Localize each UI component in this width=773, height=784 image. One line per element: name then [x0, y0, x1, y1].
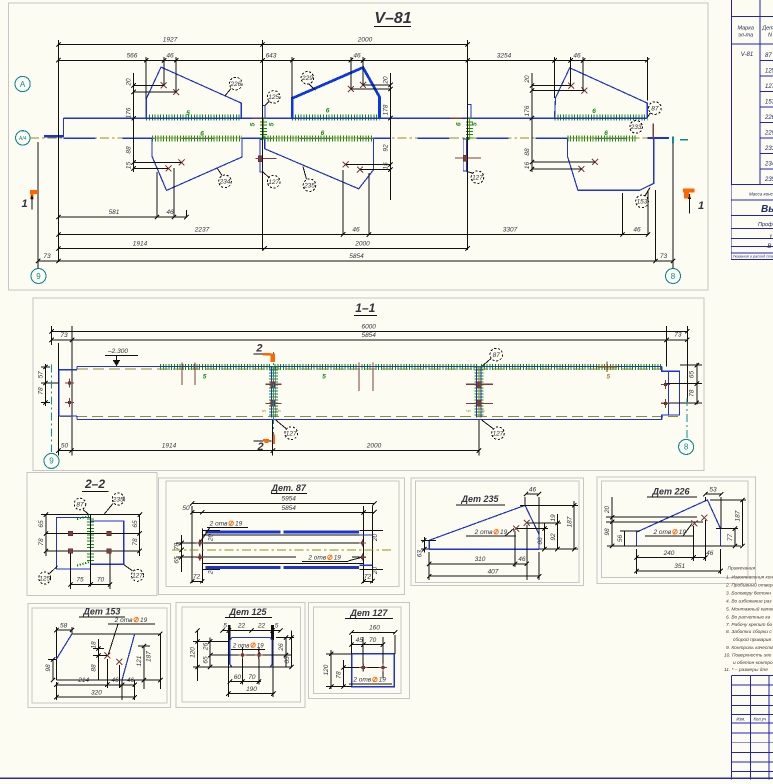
svg-text:233: 233 — [764, 146, 773, 152]
vertical dim column left (20/176/88/15) — [133, 73, 135, 172]
beam left end cap — [62, 118, 64, 137]
beam interior dashed lines — [77, 368, 660, 370]
svg-text:V-81: V-81 — [741, 52, 753, 58]
svg-text:22: 22 — [237, 623, 246, 630]
svg-text:3307: 3307 — [503, 227, 518, 234]
svg-text:26: 26 — [202, 643, 209, 652]
callout circle 87 — [648, 113, 651, 117]
det125 thick side plates — [228, 626, 230, 640]
det87 right end cap lines — [360, 534, 373, 536]
svg-text:5: 5 — [472, 122, 479, 126]
svg-text:127: 127 — [286, 431, 297, 438]
svg-text:125: 125 — [268, 94, 279, 101]
svg-text:8: 8 — [671, 272, 676, 281]
weld hatch 5 on gusset 226 — [146, 115, 241, 121]
axis 8 vertical line — [672, 144, 674, 269]
section axis 8 — [686, 398, 688, 439]
flange bolts pins — [181, 363, 183, 386]
svg-text:15: 15 — [125, 162, 132, 170]
svg-text:Дет. 87: Дет. 87 — [270, 483, 306, 493]
callout circle 127 right — [467, 171, 473, 173]
svg-text:226: 226 — [229, 81, 241, 88]
dim row bottom 2 (2237/46/3307/46) — [58, 234, 648, 236]
svg-text:229: 229 — [764, 131, 773, 137]
svg-text:5. Монтажный катет: 5. Монтажный катет — [726, 605, 773, 612]
svg-text:65: 65 — [284, 656, 291, 664]
svg-text:5954: 5954 — [281, 496, 296, 503]
det127 dim 160 — [352, 631, 396, 633]
svg-text:5: 5 — [262, 409, 268, 412]
svg-text:2 отв: 2 отв — [307, 555, 326, 562]
det127 dims 45/70 — [352, 644, 383, 646]
svg-text:Дет: Дет — [761, 26, 773, 32]
svg-text:20: 20 — [125, 78, 132, 87]
svg-text:2. Пробивный отверст: 2. Пробивный отверст — [725, 581, 773, 588]
svg-text:20: 20 — [524, 75, 531, 84]
dim row bottom 3 (1914/2000) — [58, 248, 467, 250]
section cut 2 line — [273, 352, 275, 444]
center joint: vertical weld — [263, 118, 265, 139]
svg-text:65: 65 — [38, 520, 45, 528]
svg-text:78: 78 — [689, 389, 696, 397]
callout circle 234 — [218, 169, 223, 176]
svg-text:8: 8 — [684, 443, 689, 452]
svg-text:N: N — [768, 33, 772, 39]
svg-text:65: 65 — [689, 371, 696, 379]
axis 9 vertical line — [37, 142, 39, 268]
det127 bolts — [362, 637, 364, 672]
svg-text:19: 19 — [257, 643, 264, 649]
det153 dim 98 — [52, 659, 54, 680]
det87 dims 72 bottom — [192, 580, 202, 582]
vertical dim column right (20/176/88/16) — [531, 73, 533, 172]
det87 beam flange bars — [205, 531, 280, 534]
frame: top view V-81 container — [9, 3, 709, 290]
svg-text:26: 26 — [278, 643, 285, 652]
svg-text:5: 5 — [223, 623, 227, 630]
svg-text:87: 87 — [765, 53, 772, 59]
svg-text:1: 1 — [698, 200, 704, 212]
svg-text:1. Изготовления конст: 1. Изготовления конст — [726, 575, 773, 581]
left end bolts — [65, 379, 74, 388]
callout circle 125 — [265, 101, 270, 106]
svg-text:88: 88 — [125, 146, 132, 154]
svg-text:20: 20 — [372, 567, 379, 576]
svg-text:125: 125 — [39, 575, 50, 582]
svg-text:87: 87 — [76, 501, 84, 508]
svg-text:5: 5 — [268, 122, 275, 126]
svg-text:5: 5 — [275, 623, 279, 630]
svg-text:11. * – размеры для: 11. * – размеры для — [724, 667, 768, 673]
svg-text:73: 73 — [60, 332, 68, 339]
svg-text:1–1: 1–1 — [355, 301, 375, 315]
frame: Det 127 box — [309, 602, 410, 698]
svg-text:127: 127 — [765, 84, 773, 90]
svg-text:310: 310 — [475, 556, 486, 563]
svg-text:78: 78 — [38, 538, 45, 546]
weld hatch 6 on gusset 233 — [555, 115, 648, 121]
right end bolts — [661, 380, 670, 389]
svg-text:2: 2 — [256, 441, 263, 453]
svg-text:2 отв: 2 отв — [652, 529, 671, 536]
frame: section 2-2 box — [27, 473, 157, 596]
det226 shape — [636, 500, 720, 546]
svg-text:2237: 2237 — [194, 227, 210, 234]
svg-text:46: 46 — [518, 556, 526, 563]
svg-text:187: 187 — [735, 510, 742, 521]
det235 left 63 — [421, 539, 436, 541]
svg-text:19: 19 — [379, 677, 387, 684]
svg-text:5: 5 — [249, 122, 256, 126]
vertical dim column middle (20/178/92/15) — [390, 73, 392, 200]
det153 holes — [104, 653, 110, 659]
section dim row 73/5854/73 — [52, 339, 688, 341]
svg-text:643: 643 — [266, 52, 277, 59]
svg-text:2000: 2000 — [354, 241, 370, 248]
svg-text:73: 73 — [674, 332, 682, 339]
det235 dim 46 top — [526, 493, 539, 495]
2-2 plate right (235) — [91, 521, 124, 564]
det125 plate outline — [230, 638, 272, 668]
svg-text:72: 72 — [364, 573, 372, 580]
svg-text:87: 87 — [493, 352, 501, 359]
svg-text:58: 58 — [60, 622, 68, 629]
svg-text:63: 63 — [416, 550, 423, 558]
det153 dim 58 — [56, 629, 72, 631]
svg-text:5854: 5854 — [349, 253, 364, 260]
svg-text:5: 5 — [481, 409, 487, 412]
svg-text:581: 581 — [109, 209, 120, 216]
dim row bottom 1 (581/46) — [58, 216, 186, 218]
svg-text:8. Заботки сборки с: 8. Заботки сборки с — [726, 629, 772, 635]
svg-text:5854: 5854 — [281, 505, 296, 512]
det87 dim 5954 — [192, 502, 374, 504]
section bottom dim row (50/1914/2000) — [58, 450, 479, 452]
svg-text:18: 18 — [90, 641, 97, 649]
svg-text:240: 240 — [663, 550, 675, 557]
2-2 callout 127 — [124, 565, 133, 571]
2-2 bolt rows — [46, 532, 140, 534]
svg-text:20: 20 — [207, 567, 214, 576]
svg-text:20: 20 — [372, 534, 379, 543]
2-2 plate left (87 web) — [57, 517, 91, 569]
svg-text:120: 120 — [323, 664, 330, 675]
mid joint (section) — [269, 367, 278, 418]
svg-text:46: 46 — [352, 227, 360, 234]
svg-text:46: 46 — [127, 677, 135, 684]
page bottom border — [0, 777, 773, 779]
callout circle 235 — [303, 167, 307, 180]
bolts X gusset 153 — [578, 166, 584, 172]
svg-text:Дет 235: Дет 235 — [460, 494, 499, 504]
det127 verticals 160 ends — [351, 635, 353, 654]
2-2 top line — [41, 514, 141, 516]
bolts X gusset 234 — [166, 165, 172, 171]
det87 dim 50/5854 — [192, 511, 374, 513]
det125 left dims 120/26/65 — [197, 631, 199, 681]
svg-text:226: 226 — [764, 115, 773, 121]
svg-text:10. Поверхность эле: 10. Поверхность эле — [724, 652, 772, 658]
right joint: vertical weld — [468, 118, 470, 139]
det87 holes left — [196, 539, 203, 546]
det226 left dims 20/98 — [611, 497, 613, 546]
svg-text:5: 5 — [186, 110, 190, 117]
svg-text:127: 127 — [268, 179, 279, 186]
svg-text:1914: 1914 — [133, 241, 148, 248]
right joint bolt marks — [463, 155, 467, 161]
frame: Det 226 box — [597, 477, 756, 584]
svg-text:66: 66 — [537, 537, 544, 545]
dim row 1 top (1927/2000) — [58, 44, 467, 46]
det125 bottom dims 60/70 — [230, 681, 261, 683]
svg-text:46: 46 — [111, 677, 119, 684]
svg-text:233: 233 — [630, 124, 642, 131]
weld hatch 6 on gusset 229 — [292, 115, 379, 121]
gusset plate 226 — [146, 67, 241, 118]
svg-text:2 отв: 2 отв — [232, 643, 249, 649]
bolts X gusset 233 — [568, 83, 574, 89]
stamp table (blue) — [730, 675, 732, 779]
svg-text:88: 88 — [524, 148, 531, 156]
svg-text:19: 19 — [334, 555, 342, 562]
section callout 87 — [482, 359, 491, 367]
svg-text:19: 19 — [550, 514, 557, 522]
spec table (blue) — [731, 0, 733, 185]
svg-text:Указания и расход стали: Указания и расход стали — [733, 255, 773, 259]
frame: Det 125 box — [176, 602, 305, 707]
2-2 callout 87 — [83, 510, 89, 515]
spec table lower block — [730, 185, 732, 260]
svg-text:6: 6 — [321, 130, 325, 137]
svg-text:65: 65 — [202, 656, 209, 664]
left end dims (57/78) — [45, 364, 47, 406]
svg-text:178: 178 — [382, 104, 389, 115]
svg-text:Дет 226: Дет 226 — [651, 487, 690, 497]
svg-text:98: 98 — [45, 664, 52, 672]
svg-text:235: 235 — [764, 177, 773, 183]
svg-text:Дет 125: Дет 125 — [228, 607, 267, 617]
svg-text:2000: 2000 — [357, 37, 373, 44]
svg-text:56: 56 — [617, 535, 624, 543]
svg-text:46: 46 — [633, 227, 641, 234]
det226 bolts — [692, 520, 698, 526]
det125 bolts — [241, 647, 243, 685]
svg-text:153: 153 — [637, 199, 648, 206]
svg-text:5: 5 — [203, 374, 207, 381]
svg-text:127: 127 — [472, 175, 483, 182]
svg-text:2000: 2000 — [366, 443, 382, 450]
center joint: plate 125 (top) — [263, 105, 265, 117]
svg-text:78: 78 — [132, 538, 139, 546]
svg-text:77: 77 — [727, 534, 734, 542]
top flange weld hatch (section) — [160, 364, 271, 370]
det125 right dims 26/65 — [285, 638, 287, 668]
det153 right dims 121/187 — [143, 646, 145, 689]
svg-text:2 отв: 2 отв — [114, 617, 133, 624]
det127 plate — [352, 654, 395, 687]
svg-text:78: 78 — [37, 387, 44, 395]
det87 small 20 labels — [202, 529, 220, 531]
beam top flange edge (top view) — [63, 117, 647, 119]
det125 top dims 5/22/22/5 — [223, 630, 281, 632]
frame: section 1-1 container — [33, 298, 704, 471]
svg-text:Дет 153: Дет 153 — [82, 607, 120, 617]
svg-text:7. Рабочу крепит бо: 7. Рабочу крепит бо — [726, 622, 772, 628]
svg-text:6: 6 — [604, 130, 608, 137]
svg-text:234: 234 — [219, 179, 231, 186]
svg-text:16: 16 — [524, 162, 531, 170]
svg-text:3254: 3254 — [497, 52, 512, 59]
svg-text:2 отв: 2 отв — [474, 529, 493, 536]
svg-text:320: 320 — [91, 689, 102, 696]
det127 left dims 120/78 — [330, 650, 332, 689]
det125 long bottom line — [193, 666, 291, 668]
axis circle A/4 — [16, 131, 30, 145]
det87 end verticals — [201, 529, 203, 584]
svg-text:46: 46 — [166, 52, 174, 59]
svg-text:1927: 1927 — [163, 37, 178, 44]
svg-text:351: 351 — [674, 563, 685, 570]
frame: Det 87 box — [158, 478, 404, 595]
svg-text:70: 70 — [369, 637, 377, 644]
svg-text:2 отв: 2 отв — [352, 677, 371, 684]
svg-text:V–81: V–81 — [374, 10, 411, 27]
centerline axis A/4 (dash-dot olive) — [30, 137, 670, 139]
callout circle 229 — [309, 84, 316, 90]
svg-text:6000: 6000 — [361, 323, 376, 330]
svg-text:Примечания: Примечания — [728, 566, 756, 572]
det87 hole center lines — [176, 542, 364, 544]
dim row 2 top (566/46/643/46/3254/46) — [58, 59, 647, 61]
det87 centerline — [172, 549, 392, 551]
det87 holes right — [359, 539, 366, 546]
svg-text:2: 2 — [255, 343, 262, 355]
svg-text:65: 65 — [132, 520, 139, 528]
svg-text:Выб: Выб — [761, 203, 773, 215]
svg-text:Дет 127: Дет 127 — [349, 608, 388, 618]
svg-text:50: 50 — [182, 505, 190, 512]
det153 bottom dim 320 — [56, 696, 134, 698]
svg-text:12: 12 — [769, 235, 773, 241]
svg-text:60: 60 — [234, 674, 242, 681]
callout circle 233 — [630, 121, 643, 134]
svg-text:92: 92 — [550, 533, 557, 541]
axis circle 9 (top view) — [31, 269, 46, 284]
svg-text:235: 235 — [303, 183, 315, 190]
svg-text:6: 6 — [326, 108, 330, 115]
svg-text:160: 160 — [369, 625, 380, 632]
right joint: plate (bottom) — [463, 139, 466, 171]
section mark 1 right — [683, 188, 694, 192]
svg-text:9: 9 — [49, 457, 54, 466]
svg-text:70: 70 — [248, 674, 256, 681]
gusset plate 235 — [265, 139, 374, 189]
section dim row 6000 — [52, 330, 688, 332]
gusset plate 229 (thick) — [292, 68, 379, 119]
det235 bolts — [513, 526, 519, 532]
svg-text:153: 153 — [765, 100, 773, 106]
svg-text:53: 53 — [709, 487, 717, 494]
section mark 1 left — [30, 190, 38, 194]
det235 shape — [429, 505, 539, 549]
svg-text:75: 75 — [76, 577, 84, 584]
weld hatch 6 lower-left (gusset 234) — [152, 136, 242, 142]
svg-text:190: 190 — [246, 686, 257, 693]
svg-text:–2.300: –2.300 — [107, 348, 128, 355]
det153 bottom dims 214/46/46 — [56, 684, 134, 686]
svg-text:187: 187 — [146, 651, 153, 662]
svg-text:566: 566 — [127, 52, 138, 59]
2-2 callout 235 — [104, 504, 113, 515]
det153 shape — [72, 633, 160, 635]
beam right end cap — [647, 137, 669, 139]
center joint bolt marks — [253, 118, 262, 120]
svg-text:57: 57 — [37, 371, 44, 379]
callout circle 226 — [225, 89, 231, 96]
axis circle A — [15, 76, 30, 91]
svg-text:72: 72 — [193, 573, 201, 580]
svg-text:73: 73 — [660, 253, 668, 260]
right joint: plate (top) — [468, 104, 471, 118]
svg-text:120: 120 — [189, 647, 196, 658]
svg-text:46: 46 — [529, 486, 537, 493]
svg-text:Кол.уч: Кол.уч — [754, 717, 767, 722]
svg-text:176: 176 — [524, 105, 531, 116]
svg-text:сборой приварив: сборой приварив — [733, 636, 771, 643]
svg-text:22: 22 — [257, 623, 266, 630]
2-2 bottom dims 75/70 — [69, 553, 71, 589]
axis circle 8 (top view) — [666, 269, 681, 284]
svg-text:эл-та: эл-та — [738, 33, 753, 39]
svg-text:19: 19 — [140, 617, 148, 624]
gusset plate 233 — [555, 68, 648, 118]
svg-text:2 отв: 2 отв — [209, 521, 228, 528]
svg-text:121: 121 — [136, 655, 143, 666]
svg-text:и обетон-контро: и обетон-контро — [733, 660, 773, 666]
svg-text:234: 234 — [764, 162, 773, 168]
svg-text:6. Во расчетные ка: 6. Во расчетные ка — [726, 614, 771, 620]
svg-text:5: 5 — [466, 409, 472, 412]
svg-text:Изм.: Изм. — [736, 717, 745, 722]
svg-text:45: 45 — [356, 637, 364, 644]
det87 left dims 78/65 — [181, 535, 183, 572]
gusset plate 234 — [152, 139, 242, 190]
svg-text:46: 46 — [706, 550, 714, 557]
svg-text:127: 127 — [132, 573, 143, 580]
bolts X gusset 226 — [161, 82, 167, 88]
2-2 vertical weld — [87, 518, 94, 562]
svg-text:125: 125 — [765, 69, 773, 75]
svg-text:–В: –В — [763, 244, 771, 250]
bolt pin at right end — [652, 124, 654, 140]
right joint (section) — [474, 367, 483, 418]
svg-text:88: 88 — [90, 664, 97, 672]
svg-text:1: 1 — [22, 198, 28, 210]
svg-text:A/4: A/4 — [19, 136, 27, 142]
svg-text:20: 20 — [604, 506, 611, 515]
bolts X gusset 235 — [343, 162, 349, 168]
callout circle 153 — [645, 188, 650, 197]
weld hatch 6 lower-right (gusset 153) — [567, 136, 637, 142]
weld hatch 6 lower-middle (gusset 235) — [265, 136, 374, 142]
det226 bottom dims — [693, 526, 695, 561]
center joint: plate 127 (bottom) — [260, 140, 263, 172]
svg-text:70: 70 — [97, 577, 105, 584]
svg-text:46: 46 — [353, 52, 361, 59]
svg-text:A: A — [20, 80, 26, 89]
svg-text:15: 15 — [382, 162, 389, 170]
svg-text:6: 6 — [455, 122, 462, 126]
